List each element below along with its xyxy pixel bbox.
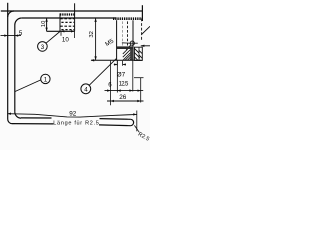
svg-text:3: 3 <box>41 44 45 51</box>
frame outer bottom edge <box>12 123 54 125</box>
svg-text:10: 10 <box>62 37 69 44</box>
insert block left edge <box>59 13 61 31</box>
insert block 3 dashed texture rows <box>60 19 74 30</box>
boss left edge <box>116 20 118 60</box>
extension line x110.5 <box>110 61 112 106</box>
M5 thread hidden lines <box>122 21 127 46</box>
svg-text:1: 1 <box>44 76 48 83</box>
top arm right end edge <box>141 5 143 21</box>
vertical 10 dim arrows <box>45 18 47 31</box>
svg-text:26: 26 <box>119 94 127 101</box>
dimension 5 at top left <box>1 35 22 37</box>
horizontal 10 dim extension stubs <box>61 32 75 39</box>
pad strip A over insert block <box>60 13 74 15</box>
inner bottom-left corner arc <box>15 112 21 118</box>
boss right edge <box>132 20 134 60</box>
inner top-left corner arc <box>15 18 22 25</box>
dia 7 hole extension stubs and arrows <box>117 61 122 66</box>
svg-text:Länge für R2.5: Länge für R2.5 <box>53 121 99 127</box>
outer bottom-left corner arc <box>8 119 13 124</box>
leader to off-image top right <box>142 26 151 34</box>
dim line 6 / 12.5 <box>105 90 144 92</box>
pad strip B under top arm right <box>113 17 142 20</box>
frame part 1 outer left edge <box>7 3 9 120</box>
balloon 4 leader <box>89 59 116 85</box>
section hatch B block <box>134 47 142 60</box>
extension line x140.7 with T bar <box>140 78 142 103</box>
dimension 92 line <box>8 114 137 117</box>
balloon 1 <box>41 74 50 83</box>
spindle tip diagonal <box>126 45 131 50</box>
bottom arm rounded nose R2.5 <box>130 119 133 125</box>
svg-text:4: 4 <box>84 86 88 93</box>
svg-text:6: 6 <box>108 82 112 89</box>
svg-text:Ø7: Ø7 <box>117 72 126 79</box>
balloon 3 leader <box>46 32 60 44</box>
dimension 32 vertical line <box>95 18 97 60</box>
horizontal 10 dim arrows <box>61 30 74 32</box>
svg-text:10: 10 <box>41 20 47 27</box>
arrow line from image edge to hidden line <box>141 45 150 47</box>
frame part 1 outer top edge <box>1 10 143 12</box>
frame inner bottom edge right segment <box>100 118 131 121</box>
hidden line right of arm end <box>141 19 143 41</box>
frame inner bottom edge left segment <box>21 117 52 119</box>
section hatch A in boss <box>117 46 133 49</box>
short line through circle <box>130 42 138 44</box>
svg-text:12.5: 12.5 <box>119 82 129 88</box>
dim line 26 <box>107 100 144 102</box>
svg-text:92: 92 <box>69 110 77 117</box>
outer top-left corner arc <box>8 11 14 17</box>
frame inner left edge <box>14 25 16 112</box>
balloon 4 <box>81 84 91 94</box>
insert block right edge + extension above top edge <box>74 3 76 31</box>
pocket left edge = vertical 10 dimension line <box>46 18 48 31</box>
extension line x117.35 <box>116 61 118 93</box>
extension line for 92 right end <box>136 111 138 132</box>
jaw face line with left arrow <box>91 59 142 61</box>
frame inner top edge <box>22 17 117 19</box>
pocket / block bottom line (also dim line for 10) <box>47 30 75 32</box>
svg-text:5: 5 <box>19 30 23 37</box>
svg-text:32: 32 <box>89 31 95 38</box>
spindle circle on boss right edge <box>130 41 134 45</box>
balloon 3 <box>38 42 48 52</box>
label R2.5 rotated with leader at nose <box>134 125 139 132</box>
balloon 1 leader <box>15 80 41 92</box>
extension line x132.8 below boss <box>132 61 134 92</box>
